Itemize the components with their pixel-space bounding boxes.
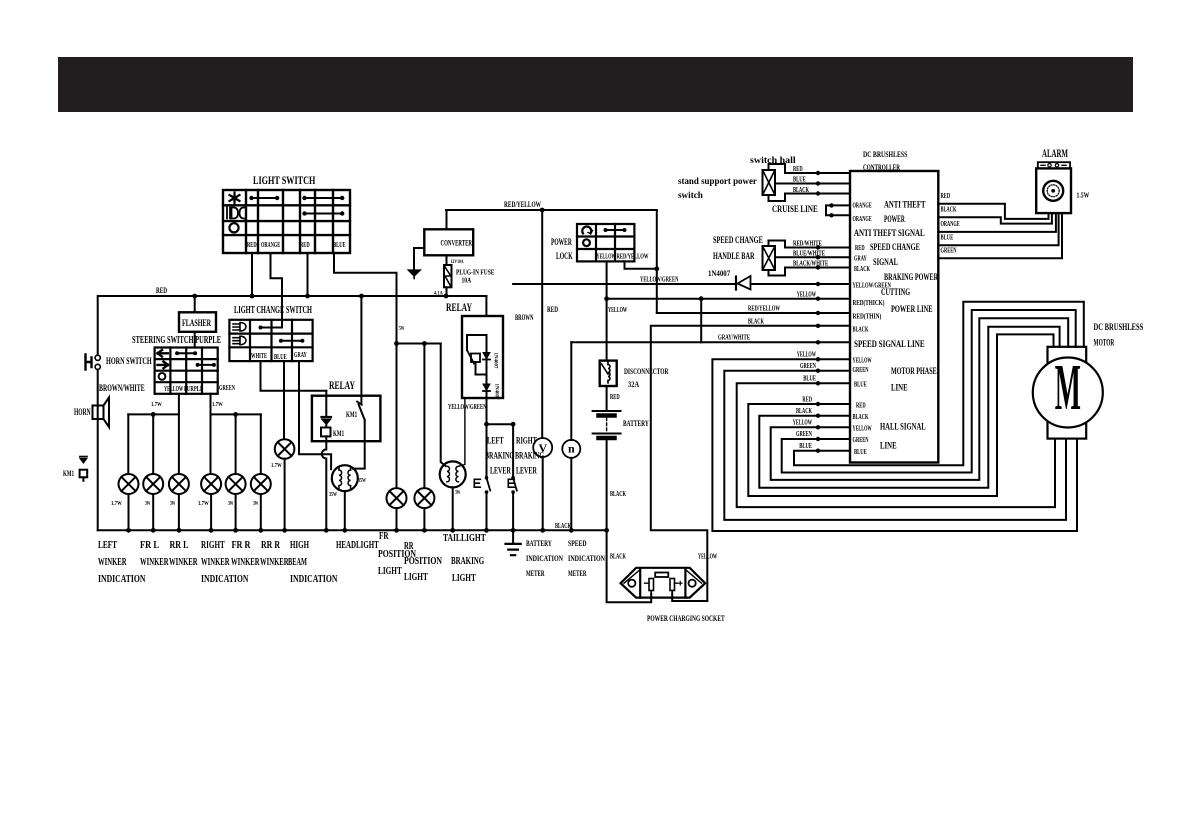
svg-text:POWER CHARGING SOCKET: POWER CHARGING SOCKET [647, 614, 725, 623]
svg-text:10A: 10A [462, 277, 472, 285]
svg-text:M: M [1055, 350, 1081, 423]
light switch icon off circle [229, 223, 238, 232]
svg-text:SPEED CHANGE: SPEED CHANGE [870, 243, 920, 253]
svg-text:1.7W: 1.7W [271, 463, 282, 469]
wire: braking power cutting line yellow/green [513, 283, 850, 285]
light switch icon headlamp [227, 208, 238, 219]
wire: converter to ground [414, 248, 424, 270]
svg-text:BROWN: BROWN [515, 313, 534, 322]
relay 2 internal diode 2 [483, 384, 490, 391]
svg-text:SPEED: SPEED [568, 539, 587, 548]
svg-text:12V10A: 12V10A [451, 260, 465, 265]
svg-text:RED: RED [793, 165, 803, 173]
speed change handle bar connector [763, 246, 776, 270]
svg-text:BLUE: BLUE [854, 448, 867, 456]
lamp FR R WINKER [226, 474, 246, 494]
plug-in fuse [446, 255, 448, 265]
light switch icon star [230, 193, 240, 204]
svg-text:LEVER: LEVER [490, 467, 511, 477]
motor frame [1048, 347, 1087, 439]
svg-text:BLACK: BLACK [748, 318, 764, 326]
power lock circle icon [583, 239, 590, 246]
svg-text:YELLOW: YELLOW [164, 385, 183, 393]
svg-text:FR R: FR R [232, 539, 252, 551]
steering switch arrow left icon [158, 350, 169, 357]
svg-text:HORN: HORN [74, 408, 91, 418]
svg-text:WINKER: WINKER [260, 556, 289, 568]
svg-text:BATTERY: BATTERY [526, 539, 552, 548]
hall BLUE loop [794, 302, 1084, 466]
wire: FR position lamp drop [396, 344, 398, 489]
svg-text:DISCONNECTOR: DISCONNECTOR [624, 367, 669, 376]
svg-text:3W: 3W [253, 501, 259, 507]
svg-text:3W: 3W [145, 501, 151, 507]
svg-text:SIGNAL: SIGNAL [873, 258, 898, 268]
relay 2 internal link [476, 360, 487, 385]
svg-text:32A: 32A [628, 380, 639, 389]
steering switch table [155, 348, 218, 394]
svg-text:KM1: KM1 [333, 429, 344, 438]
svg-text:RED: RED [300, 241, 310, 249]
svg-text:CONTROLLER: CONTROLLER [863, 163, 900, 172]
alarm box [1036, 168, 1071, 213]
svg-text:LEFT: LEFT [487, 437, 504, 447]
wire: power lock red/yellow output [625, 261, 657, 268]
svg-text:GREEN: GREEN [796, 430, 812, 438]
svg-text:POWER LINE: POWER LINE [891, 305, 933, 315]
svg-text:HANDLE BAR: HANDLE BAR [713, 252, 755, 262]
wire: speed change RED/WHITE [769, 241, 851, 248]
svg-text:HORN SWITCH: HORN SWITCH [106, 357, 152, 367]
svg-text:INDICATION: INDICATION [98, 573, 146, 585]
svg-text:WINKER: WINKER [98, 556, 127, 568]
wire: relay 2 output to brake levers [486, 398, 488, 424]
voltmeter V [533, 438, 552, 457]
cruise line bracket [826, 205, 850, 215]
svg-text:n: n [568, 442, 575, 456]
wire: alarm RED [938, 204, 1048, 219]
wire: disconnector to battery [606, 386, 608, 411]
wire: socket plus pin to yellow drop [672, 594, 707, 602]
svg-text:RED: RED [941, 192, 951, 200]
svg-text:GREEN: GREEN [853, 436, 869, 444]
svg-text:1.5W: 1.5W [1077, 192, 1090, 200]
svg-text:LEFT: LEFT [98, 539, 117, 551]
svg-text:V: V [539, 441, 548, 455]
svg-text:LINE: LINE [880, 442, 897, 452]
svg-text:POWER: POWER [884, 215, 905, 225]
wire: GRAY output to headlight low filament [299, 361, 331, 469]
svg-text:RED/YELLOW: RED/YELLOW [748, 305, 780, 313]
motor circle [1033, 358, 1103, 428]
svg-text:DC BRUSHLESS: DC BRUSHLESS [863, 150, 908, 159]
wire: RR position lamp drop [423, 344, 425, 489]
disconnector box [600, 361, 617, 386]
svg-text:switch hall: switch hall [750, 156, 796, 166]
diode inside relay KM1 [322, 416, 332, 418]
svg-text:RR L: RR L [170, 539, 189, 551]
svg-text:YELLOW: YELLOW [793, 419, 812, 427]
svg-text:BLUE/WHITE: BLUE/WHITE [793, 250, 825, 258]
svg-text:STEERING SWITCH PURPLE: STEERING SWITCH PURPLE [132, 334, 221, 346]
wire: switch hall RED [769, 164, 851, 173]
svg-text:switch: switch [678, 191, 704, 201]
svg-text:METER: METER [526, 569, 545, 578]
flasher box [179, 312, 216, 332]
svg-text:WINKER: WINKER [201, 556, 230, 568]
svg-text:35W: 35W [358, 478, 366, 484]
wire: BLUE output to high beam lamp [283, 361, 285, 439]
lamp RR R WINKER [251, 474, 271, 494]
svg-text:LOCK: LOCK [556, 252, 573, 262]
svg-text:RED(THIN): RED(THIN) [853, 313, 882, 321]
wire: alarm ORANGE [938, 213, 1056, 232]
svg-text:GREEN: GREEN [800, 362, 816, 370]
svg-text:BLACK: BLACK [941, 206, 957, 214]
svg-text:GRAY/WHITE: GRAY/WHITE [718, 334, 750, 342]
alarm speaker [1043, 181, 1063, 201]
diode 1N4007 [738, 276, 751, 290]
ground symbol below bus [512, 530, 514, 544]
svg-text:35W: 35W [329, 492, 337, 498]
svg-text:RR R: RR R [261, 539, 281, 551]
svg-text:BLUE: BLUE [941, 234, 954, 242]
svg-text:INDICATION: INDICATION [526, 554, 563, 563]
svg-text:RIGHT: RIGHT [201, 539, 225, 551]
horn speaker [93, 406, 104, 420]
power lock key icon [582, 227, 591, 234]
svg-text:ORANGE: ORANGE [941, 220, 960, 228]
taillight lamp [440, 461, 466, 487]
svg-text:LEVER: LEVER [516, 467, 537, 477]
light change switch contacts [261, 327, 283, 329]
svg-text:BLACK: BLACK [793, 186, 809, 194]
steering switch contacts [177, 352, 195, 354]
svg-text:BLACK: BLACK [610, 490, 626, 498]
wire: yellow line from power lock to controller [607, 298, 850, 300]
wire: switch hall BLUE [775, 183, 850, 185]
KM1 switch contact [360, 296, 362, 404]
wire: taillight position feed [441, 344, 446, 467]
hall YELLOW loop [771, 318, 1068, 480]
svg-text:BLACK: BLACK [610, 553, 626, 561]
wire: red/yellow right drop to controller row [656, 210, 658, 313]
svg-text:WHITE: WHITE [251, 352, 267, 360]
wire: headlight to ground bus [344, 491, 346, 530]
lamp FR L WINKER [143, 474, 163, 494]
socket minus plus marks [679, 581, 683, 585]
wire: right winker link bar [211, 413, 261, 415]
wire: position lamps to ground bus [397, 508, 425, 530]
headlight lamp [332, 465, 358, 491]
wire: power lock yellow output down to disconnector [606, 261, 608, 360]
converter box [424, 229, 473, 255]
wire: alarm BLUE [938, 213, 1058, 245]
svg-text:1.7W: 1.7W [151, 402, 162, 408]
lamp RR position light [414, 488, 434, 508]
svg-text:FR: FR [379, 530, 389, 542]
svg-text:1N4007: 1N4007 [494, 384, 499, 401]
ground symbol at converter [408, 270, 421, 276]
svg-text:LIGHT: LIGHT [452, 572, 476, 584]
svg-text:YELLOW/GREEN: YELLOW/GREEN [640, 276, 678, 284]
relay KM1 coil [321, 428, 331, 437]
power lock contact [606, 229, 625, 231]
svg-text:RED: RED [855, 244, 865, 252]
svg-text:BRAKING: BRAKING [485, 452, 514, 462]
relay 2 box [462, 316, 503, 398]
svg-text:YELLOW: YELLOW [597, 253, 616, 261]
svg-text:1.7W: 1.7W [212, 402, 223, 408]
svg-text:1.7W: 1.7W [111, 501, 122, 507]
right braking lever switch [512, 424, 514, 478]
svg-text:stand support power: stand support power [678, 177, 758, 187]
controller box [850, 171, 938, 463]
wire: converter top to red/yellow line [446, 210, 448, 229]
svg-text:KM1: KM1 [346, 410, 357, 419]
svg-text:BLACK: BLACK [854, 265, 870, 273]
svg-text:BLACK: BLACK [853, 326, 869, 334]
svg-text:RELAY: RELAY [329, 378, 355, 392]
svg-text:TAILLIGHT: TAILLIGHT [443, 532, 486, 544]
svg-text:BLUE: BLUE [333, 241, 346, 249]
wire: left vertical below horn switch down to ground bus [97, 370, 99, 531]
wire: fuse to bus [446, 287, 448, 296]
svg-text:RR: RR [404, 540, 414, 552]
svg-text:PURPLE: PURPLE [184, 385, 203, 393]
motor phase YELLOW loop [712, 359, 1077, 531]
svg-text:LIGHT: LIGHT [404, 571, 428, 583]
svg-text:BATTERY: BATTERY [623, 419, 649, 428]
svg-text:1.7W: 1.7W [198, 501, 209, 507]
svg-text:POWER: POWER [551, 238, 572, 248]
lamp RR L WINKER [169, 474, 189, 494]
svg-text:RED: RED [610, 393, 620, 401]
svg-text:MOTOR: MOTOR [1094, 339, 1115, 349]
wire: gray/white speed signal row [571, 341, 850, 343]
wire: left winker link bar [128, 413, 179, 415]
svg-text:YELLOW: YELLOW [853, 357, 872, 365]
svg-text:RED/YELLOW: RED/YELLOW [617, 253, 649, 261]
svg-text:INDICATION: INDICATION [568, 554, 605, 563]
svg-text:BROWN/WHITE: BROWN/WHITE [99, 384, 145, 394]
svg-text:HEADLIGHT: HEADLIGHT [336, 539, 379, 551]
svg-text:YELLOW: YELLOW [797, 351, 816, 359]
wire: high beam lamp to ground bus [284, 459, 286, 531]
svg-text:GREEN: GREEN [941, 247, 957, 255]
svg-text:MOTOR PHASE: MOTOR PHASE [891, 367, 937, 377]
svg-text:ORANGE: ORANGE [261, 241, 280, 249]
wire: KM1 switch to headlight high filament [353, 420, 365, 469]
relay 2 internal top bar [467, 335, 487, 352]
svg-text:LIGHT SWITCH: LIGHT SWITCH [253, 173, 316, 187]
svg-text:LINE: LINE [891, 384, 908, 394]
svg-text:ALARM: ALARM [1042, 146, 1068, 160]
svg-text:3W: 3W [170, 501, 176, 507]
svg-text:BLUE: BLUE [854, 381, 867, 389]
light switch contacts [252, 197, 278, 199]
wire: red thick row from red/yellow drop [657, 312, 850, 314]
motor phase GREEN loop [724, 371, 1066, 520]
steering switch arrow right icon [158, 362, 169, 369]
svg-text:4.1A: 4.1A [434, 292, 443, 297]
switch hall connector [763, 170, 776, 195]
light change switch table [229, 320, 312, 361]
wire: light switch ORANGE col3 jog to light change switch [271, 253, 283, 328]
speed meter n [562, 440, 580, 458]
speed meter wire [570, 342, 572, 440]
wire: alarm BLACK [938, 213, 1052, 224]
svg-text:RED: RED [856, 402, 866, 410]
svg-text:FR L: FR L [140, 539, 159, 551]
svg-text:YELLOW: YELLOW [698, 553, 717, 561]
motor letter M [1055, 350, 1081, 423]
svg-text:BLACK: BLACK [555, 522, 571, 530]
svg-text:INDICATION: INDICATION [290, 573, 338, 585]
wire: n meter to ground bus [570, 458, 572, 530]
svg-text:SPEED SIGNAL LINE: SPEED SIGNAL LINE [854, 340, 925, 350]
wire: winker lamps to ground bus [129, 494, 261, 530]
steering switch circle icon [159, 373, 166, 380]
svg-text:BLUE: BLUE [274, 353, 287, 361]
hall GREEN loop [782, 310, 1076, 473]
light switch table [223, 190, 350, 253]
svg-text:GREEN: GREEN [853, 366, 869, 374]
svg-text:RED: RED [156, 286, 167, 295]
svg-text:CUTTING: CUTTING [881, 288, 910, 298]
wire: taillight brake filament to relay output [459, 398, 465, 466]
svg-text:BLUE: BLUE [793, 176, 806, 184]
wire: bottom ground bus [98, 529, 607, 531]
svg-text:WINKER: WINKER [169, 556, 198, 568]
svg-text:POSITION: POSITION [404, 555, 442, 567]
motor phase BLUE loop [737, 383, 1055, 507]
svg-text:ANTI THEFT: ANTI THEFT [884, 201, 926, 211]
svg-text:RELAY: RELAY [446, 300, 472, 314]
wire: flasher to steering switch [194, 332, 196, 348]
svg-text:RED: RED [547, 305, 558, 314]
wire: RED/YELLOW top line [446, 209, 657, 211]
svg-text:GRAY: GRAY [854, 255, 867, 263]
wire: red thin / black row to socket [651, 326, 850, 601]
svg-text:METER: METER [568, 569, 587, 578]
svg-text:BLACK/WHITE: BLACK/WHITE [793, 260, 828, 268]
svg-text:SPEED CHANGE: SPEED CHANGE [713, 236, 763, 246]
wire: steering yellow output to left winker lamp [178, 394, 180, 474]
svg-text:CRUISE LINE: CRUISE LINE [772, 205, 818, 215]
svg-text:FLASHER: FLASHER [182, 319, 211, 329]
hall RED loop [748, 334, 1053, 496]
lamp FR position light [387, 488, 407, 508]
wire: alarm GREEN [938, 213, 1062, 258]
svg-text:WINKER: WINKER [140, 556, 169, 568]
wire: WHITE output of light change switch to relay coil [261, 361, 327, 391]
svg-text:ORANGE: ORANGE [853, 202, 872, 210]
relay 2 internal coil [471, 354, 480, 363]
svg-text:WINKER: WINKER [231, 556, 260, 568]
svg-text:BRAKING: BRAKING [451, 555, 484, 567]
svg-text:RIGHT: RIGHT [516, 437, 537, 447]
wire: position lamp feed bar [397, 343, 441, 345]
svg-text:PLUG-IN FUSE: PLUG-IN FUSE [456, 269, 495, 277]
svg-text:YELLOW/GREEN: YELLOW/GREEN [448, 403, 486, 411]
lamp HIGH BEAM INDICATION [275, 439, 295, 459]
lamp RIGHT WINKER INDICATION [201, 474, 221, 494]
title banner [58, 57, 1133, 112]
power lock table [577, 224, 634, 261]
lamp LEFT WINKER INDICATION [119, 474, 139, 494]
svg-text:GRAY: GRAY [294, 351, 307, 359]
wire: V meter to ground bus [542, 457, 544, 530]
wire: main RED supply bus [98, 296, 487, 355]
power charging socket [621, 568, 706, 598]
svg-text:BRAKING POWER: BRAKING POWER [884, 273, 938, 283]
wire: speed change BLUE/WHITE [775, 256, 850, 258]
wire: relay coil to ground bus with hop [322, 436, 327, 530]
horn switch [95, 355, 100, 360]
junction dots on RED bus [192, 294, 197, 299]
svg-text:1N4007: 1N4007 [708, 269, 730, 278]
wire: light switch RED col2 to bus [251, 253, 253, 296]
svg-text:GREEN: GREEN [219, 384, 235, 392]
V meter wire from red feed [541, 210, 543, 438]
svg-text:CONVERTER: CONVERTER [441, 239, 473, 248]
relay 2 internal diode 1 [483, 353, 490, 360]
svg-text:BLACK: BLACK [796, 407, 812, 415]
svg-text:RED/YELLOW: RED/YELLOW [504, 200, 541, 209]
svg-text:3W: 3W [228, 501, 234, 507]
wire: light switch BLUE col7 to position-lamp feed [334, 253, 397, 344]
svg-text:YELLOW: YELLOW [608, 306, 627, 314]
svg-text:1N4007: 1N4007 [493, 353, 498, 370]
wire: yellow branch drop [700, 299, 702, 343]
left braking lever switch [486, 424, 488, 478]
relay KM1 box [312, 396, 381, 442]
battery symbol [593, 410, 621, 412]
wire: light switch RED col5 to bus [307, 253, 309, 296]
KM1 contact symbol bottom-left [80, 456, 87, 458]
svg-text:5W: 5W [399, 326, 405, 332]
wire: relay coil feed from WHITE [325, 391, 327, 417]
relay 2 internal switch [467, 350, 474, 364]
svg-text:BEAM: BEAM [288, 556, 307, 568]
wire: bus corner into relay 2 top [485, 296, 487, 316]
svg-text:HIGH: HIGH [290, 539, 309, 551]
svg-text:RED(THICK): RED(THICK) [853, 299, 885, 307]
svg-text:RED/WHITE: RED/WHITE [793, 240, 822, 248]
svg-text:LIGHT CHANGE SWITCH: LIGHT CHANGE SWITCH [234, 304, 312, 316]
light change switch headlamp icons [233, 323, 246, 332]
wire: battery negative down to socket [607, 440, 652, 602]
wire: taillight to ground bus [452, 487, 454, 530]
svg-text:BLUE: BLUE [799, 442, 812, 450]
svg-text:BLUE: BLUE [803, 375, 816, 383]
svg-text:YELLOW: YELLOW [797, 291, 816, 299]
svg-text:ORANGE: ORANGE [853, 215, 872, 223]
wire: brake lever top bar [487, 423, 514, 425]
svg-text:BLACK: BLACK [853, 413, 869, 421]
wire: steering purple output to right winker lamp [210, 394, 212, 474]
svg-text:YELLOW: YELLOW [853, 425, 872, 433]
svg-text:HALL SIGNAL: HALL SIGNAL [880, 423, 926, 433]
svg-text:LIGHT: LIGHT [378, 565, 402, 577]
hall BLACK loop [759, 327, 1059, 488]
svg-text:RED: RED [802, 396, 812, 404]
wire: speed change BLACK/WHITE [769, 268, 851, 276]
wire: switch hall BLACK [769, 194, 851, 202]
svg-text:ANTI THEFT SIGNAL: ANTI THEFT SIGNAL [854, 229, 925, 239]
svg-text:DC BRUSHLESS: DC BRUSHLESS [1094, 323, 1144, 333]
